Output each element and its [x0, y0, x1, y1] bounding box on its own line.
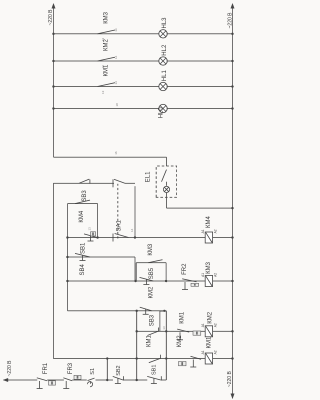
- wire supply S1-SB2: [96, 379, 114, 381]
- thermal contact on KM1 branch: [190, 356, 201, 367]
- node bus-wire137: [136, 357, 138, 359]
- svg-text:A1: A1: [201, 350, 205, 354]
- node railB-HL2: [52, 60, 54, 62]
- wire SB4 branch: [68, 256, 136, 258]
- pushbutton SB1 start on KM4 branch: [84, 234, 97, 241]
- wire supply FR3-S1: [72, 379, 87, 381]
- svg-text:~220 В: ~220 В: [7, 360, 13, 377]
- wire into EL1 box: [166, 157, 168, 166]
- svg-text:SB2: SB2: [116, 365, 122, 375]
- wire supply FR1-FR3: [47, 379, 64, 381]
- wire lamp branch HL1 lower: [167, 86, 233, 88]
- N rail right arrow: [231, 4, 234, 9]
- node x89-wire166: [163, 310, 165, 312]
- wire jog from KM2 branch: [159, 311, 161, 331]
- svg-text:КМ1: КМ1: [207, 336, 213, 348]
- wire railB drop join: [134, 186, 136, 237]
- svg-text:КМ2: КМ2: [177, 335, 183, 347]
- wire KM3 pair top edge: [135, 263, 137, 281]
- coil KM1: [205, 353, 212, 364]
- node KM3-N: [231, 280, 233, 282]
- svg-text:13: 13: [88, 227, 92, 231]
- svg-text:SB4: SB4: [80, 263, 86, 275]
- wire railB drop upper: [53, 182, 114, 184]
- wire KM4 coil to N: [213, 237, 233, 239]
- lamp EL1: [163, 186, 169, 192]
- wire EL1 feed drop: [54, 156, 167, 158]
- thermal contact FR2 on KM3 branch: [182, 279, 197, 290]
- node KM4 branch - railB join: [134, 236, 136, 238]
- svg-text:14: 14: [114, 55, 118, 59]
- wire x89 vertical: [68, 310, 167, 312]
- svg-text:SB3: SB3: [82, 190, 88, 202]
- svg-text:КМ2: КМ2: [208, 311, 214, 323]
- svg-text:13: 13: [101, 90, 105, 94]
- wire KM1 coil to N: [213, 358, 233, 360]
- svg-text:КМ3: КМ3: [206, 261, 212, 273]
- selector SA1 upper section: [112, 179, 114, 187]
- svg-text:FR1: FR1: [43, 362, 49, 374]
- node supply-wire137: [136, 379, 138, 381]
- node EL1-N: [231, 207, 233, 209]
- thermal contact on KM2 branch: [177, 329, 189, 340]
- contact КМ2 NO lamp branch: [98, 57, 116, 61]
- node HL1-N: [231, 85, 233, 87]
- L supply arrow: [3, 378, 8, 381]
- wire KM3 coil to N: [213, 280, 233, 282]
- svg-text:HL1: HL1: [162, 70, 168, 82]
- node KM2-wire166: [165, 330, 167, 332]
- svg-text:A2: A2: [213, 323, 217, 327]
- svg-text:SA1: SA1: [116, 219, 122, 231]
- svg-text:18: 18: [115, 103, 119, 107]
- selector SA1 lower section: [112, 234, 114, 242]
- node KM2 branch top: [136, 330, 138, 332]
- contact KM2 NC interlock on KM1 branch: [149, 355, 161, 363]
- lamp HL2: [159, 57, 167, 65]
- svg-text:~220 В: ~220 В: [227, 371, 233, 388]
- node KM3 pair bottom: [165, 280, 167, 282]
- node HL3-N: [231, 33, 233, 35]
- wire lamp branch HL1 upper: [54, 86, 160, 88]
- lamp HL0: [159, 104, 167, 112]
- svg-text:КМ3: КМ3: [148, 243, 154, 255]
- switch S1: [88, 378, 95, 381]
- wire N rail (bottom bus): [232, 7, 234, 399]
- svg-text:S1: S1: [90, 368, 96, 375]
- rail B arrow: [52, 4, 55, 9]
- svg-text:SB1: SB1: [81, 242, 87, 254]
- svg-text:EL1: EL1: [146, 171, 152, 182]
- wire KM1 branch (control bus left): [53, 358, 205, 360]
- wire lamp branch HL2 lower: [167, 60, 233, 62]
- node supply to control bus: [106, 379, 108, 381]
- wire EL1 out: [166, 197, 168, 208]
- node KM2-N: [231, 330, 233, 332]
- svg-text:14: 14: [114, 81, 118, 85]
- pushbutton SB1 lower: [147, 376, 161, 383]
- node KM3 branch top: [66, 280, 68, 282]
- pushbutton SB3 on x89: [140, 307, 152, 314]
- pushbutton SB5 on KM3 branch: [140, 277, 154, 284]
- wire KM3 pair bottom edge: [165, 263, 167, 281]
- wire KM2 coil to N: [213, 330, 233, 332]
- luminaire EL1 dashed box: [156, 166, 176, 197]
- wire lamp branch HL0 lower: [167, 108, 233, 110]
- node KM4 pair bottom: [96, 236, 98, 238]
- svg-text:КМ2: КМ2: [148, 286, 154, 298]
- node railB-HL1: [52, 85, 54, 87]
- wire L supply upper: [7, 379, 37, 381]
- svg-text:HL0: HL0: [159, 107, 165, 119]
- wire KM4 pair bottom edge: [97, 204, 99, 238]
- tag on KM4 branch: [91, 232, 96, 236]
- contact КМ3 NO lamp branch: [98, 30, 116, 34]
- svg-text:A1: A1: [201, 229, 205, 233]
- svg-text:HL2: HL2: [162, 44, 168, 56]
- wire SB4 join: [134, 257, 136, 281]
- svg-text:13: 13: [101, 65, 105, 69]
- svg-text:14: 14: [114, 28, 118, 32]
- svg-text:A2: A2: [213, 273, 217, 277]
- svg-text:КМ4: КМ4: [206, 216, 212, 228]
- svg-text:14: 14: [130, 228, 134, 232]
- svg-text:A2: A2: [213, 229, 217, 233]
- wire KM3 pair bypass: [136, 262, 166, 264]
- svg-text:КМ3: КМ3: [104, 11, 110, 23]
- svg-text:A1: A1: [201, 323, 205, 327]
- svg-text:~220 В: ~220 В: [228, 12, 234, 29]
- thermal contact FR1: [37, 378, 48, 389]
- coil KM3: [205, 276, 212, 287]
- node bus-wire166: [165, 357, 167, 359]
- tag on KM1 branch: [179, 362, 187, 366]
- wire lamp branch HL2 upper: [54, 60, 160, 62]
- pushbutton SB3 stop on railB drop: [79, 179, 90, 184]
- thermal contact FR3: [63, 378, 72, 389]
- wire bus 67 top distribution: [67, 204, 69, 311]
- node SB4 branch top: [66, 256, 68, 258]
- contact КМ1 NO lamp branch: [98, 83, 116, 87]
- contact KM1 NC interlock on KM2 branch: [147, 328, 158, 336]
- svg-text:SB1: SB1: [152, 365, 158, 375]
- svg-text:SB3: SB3: [150, 314, 156, 326]
- tag on KM3 branch: [191, 283, 199, 286]
- coil KM2: [205, 326, 212, 337]
- wire KM2 branch: [137, 330, 206, 332]
- node KM4 branch top: [66, 236, 68, 238]
- node railB-HL3: [52, 33, 54, 35]
- node HL2-N: [231, 60, 233, 62]
- svg-text:КМ1: КМ1: [147, 335, 153, 347]
- wire bus 137: [136, 311, 138, 380]
- contact KM4 aux NO holding: [75, 200, 90, 204]
- svg-text:КМ1: КМ1: [180, 311, 186, 323]
- wire KM4 aux bypass: [68, 203, 98, 205]
- svg-text:FR3: FR3: [68, 362, 74, 374]
- pushbutton SB4: [75, 253, 90, 260]
- wire EL1 internal left: [166, 193, 168, 198]
- wire bus 166: [165, 311, 167, 380]
- wire railB drop lower: [125, 182, 135, 184]
- svg-text:HL3: HL3: [162, 17, 168, 29]
- wire lamp branch HL0 upper: [54, 108, 160, 110]
- contact KM3 aux NO holding: [148, 260, 162, 263]
- wire supply to wire166: [161, 379, 167, 381]
- node KM3-SB4: [134, 280, 136, 282]
- wire supply SB2 down: [123, 379, 147, 381]
- wire jog down: [160, 310, 166, 312]
- pushbutton SB2: [113, 376, 124, 383]
- tag on supply wire after FR1: [49, 381, 56, 385]
- node railB-HL0: [52, 107, 54, 109]
- lamp HL3: [159, 30, 167, 38]
- node KM1-N: [231, 357, 233, 359]
- wire rail B left segment: [52, 183, 54, 358]
- svg-text:16: 16: [114, 151, 118, 155]
- wire rail B right segment: [53, 8, 55, 158]
- coil KM4: [205, 232, 212, 243]
- tag on supply wire after FR3: [74, 375, 81, 379]
- wire lamp branch HL3 lower: [167, 33, 233, 35]
- svg-text:~220 В: ~220 В: [48, 9, 54, 26]
- svg-text:13: 13: [162, 326, 166, 330]
- wire lamp branch HL3 upper: [54, 33, 160, 35]
- node KM4-N: [231, 236, 233, 238]
- node HL0-N: [231, 107, 233, 109]
- wire EL1 internal right: [166, 182, 168, 186]
- tag on KM2 branch: [193, 331, 201, 335]
- node bus-supply: [106, 357, 108, 359]
- wire EL1 return to N: [167, 207, 233, 209]
- wire KM3 branch: [68, 280, 206, 282]
- svg-text:A2: A2: [213, 350, 217, 354]
- node x89-wire137: [136, 310, 138, 312]
- svg-text:КМ4: КМ4: [79, 210, 85, 222]
- wire supply to control bus horizontal: [106, 359, 108, 381]
- svg-text:13: 13: [101, 38, 105, 42]
- svg-text:FR2: FR2: [182, 263, 188, 275]
- wire KM4 branch: [68, 237, 206, 239]
- svg-text:SB5: SB5: [149, 267, 155, 279]
- link SA1 dashed: [117, 184, 119, 239]
- N rail left arrow: [231, 394, 234, 399]
- svg-text:A1: A1: [201, 273, 205, 277]
- switch inside EL1: [162, 170, 167, 182]
- lamp HL1: [159, 82, 167, 90]
